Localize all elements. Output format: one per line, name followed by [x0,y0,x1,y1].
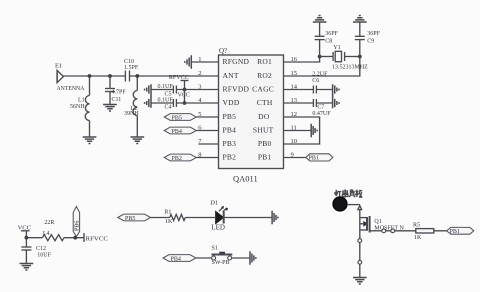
wire pin6 [196,130,218,132]
svg-text:S1: S1 [212,246,218,252]
svg-text:0.47UF: 0.47UF [312,111,331,117]
inductor L4 22R [42,220,64,241]
char 4 (pole) [355,190,362,198]
ground (pin1 RFGND) [185,55,191,68]
svg-text:PB2: PB2 [223,153,237,162]
svg-text:C10: C10 [124,59,134,65]
wire pin7 [199,143,219,145]
port PB4 (left) [164,127,196,135]
arrow marker [358,206,362,210]
port PB6 (vertical test point) [73,207,80,237]
ground (S1, pointing right) [250,251,256,264]
wire to ground [359,264,361,277]
svg-text:RFGND: RFGND [223,57,250,66]
svg-text:39NH: 39NH [124,111,139,117]
svg-text:56NH: 56NH [70,104,85,110]
svg-text:CAGC: CAGC [252,85,274,94]
ground (C5) [145,84,151,108]
svg-text:C11: C11 [112,97,122,103]
svg-text:RO1: RO1 [257,57,272,66]
svg-text:CTH: CTH [257,98,273,107]
port PB2 (left) [164,154,196,162]
port PB5 (bottom left) [118,214,151,222]
svg-text:QA011: QA011 [233,174,258,184]
char 2 (string) [342,189,348,197]
svg-text:1K: 1K [414,235,422,241]
power port VCC (bottom left) [18,225,31,238]
svg-text:RO2: RO2 [257,71,272,80]
wire pin15 RO2 [284,57,360,77]
node pin4/VCC [183,101,187,105]
svg-text:1.5PF: 1.5PF [124,65,139,71]
wire Q1 source down [359,230,361,239]
svg-text:PB5: PB5 [172,115,182,121]
wire between circles [386,230,391,232]
svg-text:Q1: Q1 [374,219,381,225]
svg-text:16: 16 [291,56,298,63]
capacitor C5 [151,84,219,97]
ground (C8, pointing up) [313,16,327,22]
node L4/flag junction [73,236,77,240]
power port RFVCC (bottom) [84,233,108,242]
svg-text:SHUT: SHUT [253,126,274,135]
svg-text:PB4: PB4 [171,256,181,262]
svg-text:PB4: PB4 [223,126,237,135]
svg-text:Q?: Q? [219,47,227,55]
svg-text:14: 14 [291,84,298,91]
svg-text:R1: R1 [164,209,171,215]
wire pin12 DO to pin10 PB0 [284,117,320,144]
ground (Q1 source) [353,278,367,284]
svg-text:1K: 1K [165,219,173,225]
wire VCC to L4 [26,237,42,239]
port PB1 (bottom right) [447,227,474,235]
svg-text:36PF: 36PF [367,31,380,37]
capacitor C8 [315,22,339,57]
pin circle (source) [358,239,362,243]
wire pin8 [196,157,218,159]
label lamp load (CJK) [335,189,363,197]
svg-text:C12: C12 [36,246,46,252]
switch S1 SW-PB [212,246,233,267]
svg-text:1: 1 [198,56,201,63]
wire pin5 [196,116,218,118]
capacitor C7 (pin13 CTH) [284,99,333,117]
wire PB5 to R1 [151,217,170,219]
svg-text:2: 2 [198,70,201,77]
port PB5 (left) [164,114,196,122]
wire pin9 PB1 [284,157,306,159]
wire R5 to PB1 [434,230,447,232]
char 3 (load) [350,190,356,198]
svg-text:DO: DO [258,112,270,121]
wire pin16 RO1 [284,57,320,63]
wire LED to ground [223,217,272,219]
wire down to drain [359,209,361,230]
svg-text:LED: LED [211,224,225,232]
ground (C4) [145,99,149,107]
char 1 (lamp) [335,190,342,197]
svg-text:C4: C4 [165,104,172,110]
svg-text:PB1: PB1 [309,156,319,162]
svg-text:3: 3 [198,84,201,91]
svg-text:4.7PF: 4.7PF [112,90,127,96]
pin circle 1 [382,229,386,233]
capacitor C12 [21,238,51,264]
svg-text:RFVDD: RFVDD [223,85,250,94]
pin 1 wire [191,61,218,63]
svg-text:36PF: 36PF [325,31,338,37]
power port RFVCC [169,75,189,90]
svg-text:Y1: Y1 [333,45,340,51]
svg-text:22R: 22R [44,220,54,226]
port PB1 (right, pin9) [306,154,333,162]
svg-text:PB0: PB0 [258,139,272,148]
LED D1 [210,200,228,232]
ground (L2) [130,137,144,143]
wire S1 to ground [232,257,250,259]
IC Q? QA011 [219,47,284,184]
node L2 junction [135,74,139,78]
ground (pin11, pointing right) [311,124,317,137]
ground (C11) [103,105,117,111]
wire PB4 to S1 [196,257,212,259]
svg-text:PB1: PB1 [450,229,460,235]
node pin3/RFVCC [183,88,187,92]
capacitor C10 [124,59,139,82]
node crystal right [358,55,362,59]
svg-text:8: 8 [198,152,201,159]
power port VCC (between pin3 and pin4) [178,90,190,104]
svg-text:PB5: PB5 [223,112,237,121]
svg-text:PB5: PB5 [125,216,135,222]
svg-text:13: 13 [291,97,298,104]
lamp (black circle) [333,197,347,211]
wire antenna to C10 [63,75,125,77]
capacitor C9 [355,22,381,57]
svg-text:E1: E1 [55,63,62,70]
pin circle 2 [391,229,395,233]
pin circle (lower) [358,260,362,264]
wire pin11 SHUT [284,130,312,132]
svg-text:R5: R5 [413,222,420,228]
svg-text:C6: C6 [312,78,319,84]
ground (C9, pointing up) [353,16,367,22]
capacitor C4 [151,97,219,110]
svg-text:C8: C8 [325,38,332,44]
wire to crystal [320,56,334,58]
ground (pin13, pointing right) [335,99,339,107]
capacitor C11 [105,76,126,105]
wire R1 to LED [185,217,215,219]
node C11 junction [108,74,112,78]
svg-text:PB6: PB6 [75,221,81,231]
wire [359,243,361,261]
ground (LED, pointing right) [272,211,278,224]
svg-text:D1: D1 [210,200,218,207]
svg-text:0.1UF: 0.1UF [158,84,174,90]
resistor R1 [164,209,185,224]
svg-text:SW-PB: SW-PB [212,260,230,266]
svg-text:L1: L1 [78,97,85,103]
node VCC junction [25,236,29,240]
svg-text:PB3: PB3 [223,139,237,148]
svg-text:C9: C9 [367,38,374,44]
capacitor C6 (pin14 CAGC) [284,86,333,94]
svg-text:ANT: ANT [223,71,239,80]
svg-text:RFVCC: RFVCC [86,235,109,242]
wire gate to pins [370,230,382,232]
svg-text:12: 12 [291,111,298,118]
svg-text:15: 15 [291,70,298,77]
ground (C12) [20,264,34,270]
svg-text:10UF: 10UF [37,253,51,259]
svg-text:11: 11 [291,125,297,132]
svg-text:2.2UF: 2.2UF [312,71,328,77]
svg-text:L4: L4 [43,231,50,237]
wire C10 to IC pin2 [130,75,219,77]
svg-text:9: 9 [291,152,294,159]
ground (pin14, pointing right) [333,84,339,108]
svg-text:ANTENNA: ANTENNA [57,85,85,92]
crystal Y1 [332,45,368,70]
wire to R5 [395,230,416,232]
node L1 junction [88,74,92,78]
inductor L1 [70,76,90,138]
svg-text:13.52313MHZ: 13.52313MHZ [332,64,368,70]
svg-text:PB4: PB4 [172,129,182,135]
wire lamp to Q1 drain [347,204,360,206]
resistor R5 [413,222,434,241]
svg-text:5: 5 [198,111,201,118]
port PB4 (bottom) [163,255,196,263]
transistor Q1 MOSFET N [360,216,405,233]
svg-text:VDD: VDD [223,98,240,107]
svg-text:VCC: VCC [178,92,190,98]
svg-text:PB1: PB1 [258,153,272,162]
inductor L2 [124,76,139,138]
ground (L1) [83,137,97,143]
svg-text:C7: C7 [317,105,324,111]
svg-text:10: 10 [291,138,298,145]
svg-text:0.1UF: 0.1UF [158,97,174,103]
antenna E1 [55,63,85,93]
node crystal left [318,55,322,59]
svg-text:PB2: PB2 [172,156,182,162]
wire L4 to RFVCC [64,237,84,239]
